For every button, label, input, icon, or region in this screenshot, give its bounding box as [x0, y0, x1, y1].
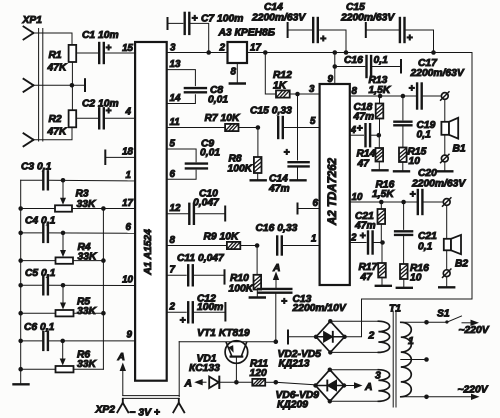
arrow net A xp2 — [122, 369, 124, 396]
svg-text:+: + — [409, 83, 415, 95]
wire C4 to pin6 — [48, 232, 135, 234]
svg-text:− 3V +: − 3V + — [130, 408, 160, 418]
svg-text:47K: 47K — [47, 63, 68, 74]
node bus2 R5 — [101, 311, 106, 316]
capacitor C20 — [417, 190, 419, 214]
wire C12 right — [193, 311, 226, 313]
svg-text:100K: 100K — [229, 284, 255, 295]
connector XP2 prong left — [117, 399, 128, 413]
wire XP1 pin2 row — [34, 84, 86, 86]
svg-text:17: 17 — [122, 198, 133, 209]
svg-text:КД213: КД213 — [279, 359, 310, 370]
wire left bus — [20, 180, 22, 383]
svg-text:~220V: ~220V — [458, 385, 489, 396]
svg-text:2: 2 — [169, 302, 176, 313]
svg-text:2200m/10V: 2200m/10V — [292, 303, 347, 314]
wire pin 12 — [167, 213, 190, 215]
wire B1 gnd — [444, 162, 446, 171]
capacitor C6 — [42, 332, 44, 350]
node bus R5 — [18, 311, 23, 316]
wire B1 top stem — [444, 99, 446, 121]
capacitor C13 — [258, 288, 291, 290]
wire C3 to pin1 — [48, 179, 135, 182]
svg-text:9: 9 — [328, 74, 334, 85]
svg-text:2200m/63V: 2200m/63V — [340, 13, 395, 24]
ground B1 — [437, 170, 452, 172]
svg-text:B2: B2 — [455, 259, 468, 270]
arrow net A right — [344, 385, 355, 387]
capacitor C15b 0.33 — [277, 117, 279, 138]
svg-text:A: A — [364, 382, 372, 393]
ground C14b — [291, 179, 306, 181]
wire C10 right — [194, 213, 225, 215]
connector XP1 pin 3 prong — [24, 133, 34, 146]
wire C19 stem — [402, 96, 404, 120]
wire right bus2 — [102, 209, 104, 370]
capacitor C4 — [42, 224, 44, 242]
node bus2 R4 — [101, 258, 106, 263]
node base/R11 — [234, 380, 239, 385]
wire C19 to R15 — [402, 125, 404, 147]
wire T1 mid tap — [401, 359, 427, 361]
wire R4 left — [21, 260, 56, 262]
wire R17 top — [381, 243, 383, 264]
node pin3 A2 — [295, 92, 300, 97]
wire -3V pair — [123, 395, 179, 397]
wire C21b to R16b — [403, 235, 405, 264]
svg-text:47: 47 — [360, 272, 374, 283]
node pin3/A3 — [206, 50, 211, 55]
capacitor C2 — [98, 108, 100, 128]
wire R16a bottom — [380, 224, 382, 243]
svg-text:8: 8 — [170, 235, 176, 246]
svg-text:0,047: 0,047 — [193, 198, 220, 209]
terminal bar mid row — [84, 79, 86, 91]
resistor R8 — [254, 157, 262, 173]
node C3 out — [61, 178, 66, 183]
svg-text:10: 10 — [409, 156, 421, 167]
resistor R15 — [399, 148, 407, 163]
svg-text:C14: C14 — [264, 2, 283, 13]
svg-text:12: 12 — [170, 203, 181, 214]
svg-text:A: A — [184, 379, 192, 390]
wire R14 gnd — [378, 162, 380, 170]
wire C20 to B2 — [422, 201, 442, 203]
node C5 out — [61, 283, 66, 288]
wire pin3 to A3 — [167, 52, 228, 54]
svg-text:47m: 47m — [268, 184, 290, 195]
node bus R4 — [18, 258, 23, 263]
svg-text:+: + — [357, 123, 363, 135]
resistor R6 — [56, 366, 74, 372]
wire C1 to pin15 — [104, 52, 135, 54]
terminal bar C15 — [365, 23, 367, 37]
transformer T1 core — [392, 311, 394, 407]
wire C16b to pin1 A2 — [282, 245, 320, 247]
ground R16b — [397, 287, 412, 289]
wire A2 pin6 stub — [298, 208, 320, 210]
wire R1 bottom to node — [71, 62, 73, 85]
svg-text:A2 TDA7262: A2 TDA7262 — [327, 157, 339, 226]
rectifier bridge VD2-VD5 — [316, 321, 345, 352]
svg-text:R10: R10 — [230, 273, 249, 284]
capacitor C10 — [188, 204, 190, 224]
capacitor C5 — [42, 276, 44, 294]
svg-text:R7 10K: R7 10K — [205, 113, 241, 124]
wire R6 right — [74, 368, 104, 370]
node bus R3 — [18, 206, 23, 211]
svg-text:1,5K: 1,5K — [372, 189, 395, 200]
wire C3 left — [21, 179, 44, 181]
svg-text:S1: S1 — [437, 309, 450, 320]
node C18/R13/R14 — [377, 133, 382, 138]
op-amp U A1 body — [135, 42, 167, 381]
wire C14 to rail — [318, 30, 346, 53]
node R7/C15/R8 — [256, 125, 261, 130]
svg-text:+: + — [192, 13, 198, 25]
node bus C5 — [18, 283, 23, 288]
wire pin4 A2 — [350, 134, 364, 136]
node R9/C16/R10 — [255, 243, 260, 248]
wire C4 left — [21, 232, 44, 234]
node bus2 R3 — [101, 206, 106, 211]
svg-text:R2: R2 — [49, 114, 62, 125]
wire pin 18 stub — [105, 156, 135, 158]
svg-text:R1: R1 — [49, 50, 62, 61]
svg-text:~220V: ~220V — [459, 325, 490, 336]
ground R17 — [376, 285, 391, 287]
resistor R7 — [225, 124, 238, 131]
wire R12 to pin3 — [290, 93, 320, 95]
svg-text:2200m/63V: 2200m/63V — [251, 13, 306, 24]
resistor R10 — [254, 275, 262, 290]
node C21b tap — [401, 200, 406, 205]
capacitor C1 — [98, 43, 100, 63]
wire C6 left — [21, 340, 44, 342]
arrow R6 wiper — [60, 359, 66, 366]
wire node to R2 top — [71, 85, 73, 110]
resistor R3 — [55, 205, 72, 211]
svg-text:+: + — [360, 230, 366, 242]
node R11/bridge — [274, 380, 279, 385]
capacitor C16b 0.33 — [276, 237, 278, 255]
wire C21b stem — [403, 202, 405, 229]
svg-text:C20: C20 — [418, 168, 437, 179]
transformer T1 winding 1 — [401, 322, 412, 397]
resistor R17 — [378, 263, 386, 278]
wire pin 2 — [167, 311, 187, 313]
wire VD1 to base — [220, 381, 236, 383]
terminal B1 top — [441, 93, 448, 100]
wire C5 left — [21, 284, 44, 286]
svg-text:КС133: КС133 — [189, 363, 220, 374]
svg-text:5: 5 — [170, 139, 176, 150]
svg-text:A3 КРЕН8Б: A3 КРЕН8Б — [218, 28, 276, 39]
wire C14b to ground — [297, 166, 299, 179]
wire emitter to XP2 — [178, 342, 180, 397]
transistor VT1 body — [225, 341, 248, 364]
wire R15 gnd — [402, 162, 404, 171]
svg-text:3: 3 — [375, 370, 381, 382]
svg-text:C5 0,1: C5 0,1 — [25, 268, 56, 279]
node rail C15 — [431, 50, 436, 55]
wire R1 to C1 — [76, 52, 99, 54]
wire XP1 pin3 to R2 bottom — [34, 127, 73, 140]
svg-text:+: + — [281, 296, 287, 308]
wire R3 left — [21, 208, 55, 210]
wire R10 stem — [256, 246, 258, 275]
svg-text:1: 1 — [311, 234, 316, 245]
svg-text:0,01: 0,01 — [200, 148, 220, 159]
terminal B2 top — [443, 199, 450, 206]
wire pin 14 — [167, 95, 196, 104]
transformer T1 winding 2 — [378, 321, 389, 352]
terminal bar C12 — [224, 303, 226, 321]
ground R15 — [394, 170, 409, 172]
svg-text:120: 120 — [250, 368, 267, 379]
resistor R5 — [56, 310, 74, 316]
svg-text:+: + — [410, 189, 416, 201]
wire R9 to node — [240, 245, 257, 247]
wire C15b to pin5 A2 — [283, 127, 320, 129]
capacitor C8 — [185, 87, 206, 89]
arrow R3 wiper — [60, 198, 66, 205]
ground A3 — [230, 82, 245, 84]
node C19 tap — [401, 94, 406, 99]
wire bridge2 bottom to T1 — [330, 400, 379, 402]
node bus C4 — [18, 231, 23, 236]
connector XP1 pin 1 prong — [24, 27, 34, 40]
node bus R6 — [18, 367, 23, 372]
wire R6 left — [21, 368, 56, 370]
capacitor C14b 47m — [289, 161, 309, 163]
wire bridge1 right — [345, 299, 362, 337]
wire R5 left — [21, 312, 56, 314]
resistor R16b — [400, 264, 408, 279]
svg-text:7: 7 — [170, 265, 176, 276]
svg-text:1: 1 — [126, 170, 131, 181]
svg-text:6: 6 — [313, 198, 319, 209]
svg-text:C4 0,1: C4 0,1 — [25, 216, 56, 227]
capacitor C3 — [42, 171, 44, 189]
svg-text:C16 0,33: C16 0,33 — [256, 223, 298, 234]
svg-text:0,01: 0,01 — [208, 95, 228, 106]
wire C15 lead — [366, 29, 400, 31]
ground B2 — [439, 286, 454, 288]
arrow net A left — [199, 381, 206, 383]
arrow R5 wiper — [60, 303, 66, 310]
connector XP1 pin 2 prong — [24, 79, 34, 92]
node rail R12 — [263, 50, 268, 55]
wire C17 to B1 — [422, 95, 441, 97]
svg-text:КД209: КД209 — [277, 400, 308, 411]
wire node to bridge2 — [276, 382, 316, 385]
arrow net A up — [275, 278, 277, 288]
wire B2 bottom stem — [446, 250, 448, 269]
resistor R4 — [56, 257, 74, 263]
resistor R13 — [376, 104, 384, 119]
svg-text:14: 14 — [170, 93, 181, 104]
resistor R1 — [69, 45, 77, 62]
capacitor C14 — [312, 18, 314, 42]
capacitor C21a — [367, 232, 369, 254]
terminal bar C14 — [287, 23, 289, 37]
wire B1 bottom stem — [444, 135, 446, 155]
svg-text:C7 100m: C7 100m — [201, 14, 243, 25]
svg-text:VT1 KT819: VT1 KT819 — [197, 328, 250, 339]
svg-text:11: 11 — [170, 117, 180, 128]
svg-text:5: 5 — [310, 116, 316, 127]
capacitor C19 — [394, 120, 411, 122]
svg-text:B1: B1 — [453, 144, 466, 155]
wire pin 5 A1 — [167, 149, 196, 162]
svg-text:47: 47 — [357, 159, 371, 170]
svg-text:0,1: 0,1 — [417, 130, 432, 141]
wire R8 stem — [257, 128, 259, 158]
svg-text:6: 6 — [170, 169, 176, 180]
svg-text:17: 17 — [250, 43, 261, 54]
svg-text:100K: 100K — [228, 164, 254, 175]
wire R6 wiper — [62, 341, 64, 360]
svg-text:C16: C16 — [344, 55, 363, 66]
svg-text:4: 4 — [125, 107, 132, 118]
svg-text:C15 0,33: C15 0,33 — [250, 106, 292, 117]
wire bottom rail — [362, 298, 473, 300]
wire R13 bottom — [379, 119, 381, 136]
wire emitter/collector line — [179, 341, 276, 343]
svg-text:XP1: XP1 — [22, 15, 43, 26]
node C21a/R16a/R17 — [380, 240, 385, 245]
resistor R11 — [252, 379, 265, 386]
svg-text:100m: 100m — [197, 302, 223, 313]
resistor R14 — [376, 148, 384, 162]
svg-text:+: + — [284, 147, 290, 159]
svg-text:10: 10 — [410, 273, 422, 284]
speaker B1 — [441, 122, 449, 135]
wire R8 to ground — [257, 173, 259, 180]
node rail pin9 — [333, 50, 338, 55]
svg-text:2: 2 — [219, 43, 226, 54]
terminal B2 bottom — [443, 270, 450, 277]
svg-text:+: + — [106, 43, 112, 54]
svg-text:47m: 47m — [353, 112, 375, 123]
wire C5 to pin10 — [48, 284, 135, 286]
node bus C6 — [18, 339, 23, 344]
svg-text:C21: C21 — [418, 231, 437, 242]
terminal bar A2 pin6 — [297, 204, 299, 214]
svg-text:C1 10m: C1 10m — [82, 30, 119, 41]
wire R5 wiper — [62, 285, 64, 304]
terminal B1 bottom — [441, 155, 448, 162]
svg-text:R12: R12 — [273, 70, 292, 81]
svg-text:10: 10 — [122, 275, 133, 286]
transformer T1 winding 3 — [378, 370, 389, 402]
wire pin 8 to R9 — [167, 245, 227, 247]
svg-text:4: 4 — [350, 125, 357, 136]
wire R3 wiper — [62, 180, 64, 199]
node rail C14 — [344, 50, 349, 55]
svg-text:8: 8 — [352, 86, 358, 97]
terminal bar bridge1 — [287, 331, 289, 344]
svg-text:C11 0,047: C11 0,047 — [177, 253, 225, 264]
svg-text:3: 3 — [170, 43, 176, 54]
svg-text:2200m/63V: 2200m/63V — [411, 179, 466, 190]
wire C15 to rail — [405, 30, 434, 53]
wire R5 right — [74, 312, 104, 314]
wire pin 13 — [167, 70, 196, 86]
terminal bar C11 — [224, 270, 226, 283]
svg-text:18: 18 — [122, 147, 133, 158]
svg-text:15: 15 — [122, 43, 133, 54]
wire pin 11 to R7 — [167, 127, 225, 129]
node C6 out — [60, 339, 65, 344]
capacitor C9 — [186, 162, 207, 164]
wire C16 right — [371, 66, 401, 68]
svg-text:9: 9 — [127, 330, 133, 341]
svg-text:8: 8 — [231, 67, 237, 78]
arrow mains bottom — [471, 394, 480, 400]
node C4 out — [61, 231, 66, 236]
wire bridge1 left lead — [288, 336, 316, 338]
svg-text:0,1: 0,1 — [374, 55, 389, 66]
wire B2 gnd — [446, 277, 448, 287]
node S1 tap — [424, 320, 429, 325]
wire pin 7 — [167, 274, 187, 276]
svg-text:2200m/63V: 2200m/63V — [410, 68, 465, 79]
svg-text:2: 2 — [350, 233, 357, 244]
ground R8 — [251, 179, 266, 181]
wire C13 down — [275, 293, 277, 342]
svg-text:1: 1 — [408, 335, 414, 347]
wire C6 to pin9 — [48, 340, 135, 342]
wire C16 lead — [335, 66, 365, 68]
wire bridge2 top to T1 — [330, 369, 379, 371]
wire R7 to node — [239, 127, 258, 129]
wire R12 branch — [265, 53, 276, 95]
svg-text:+: + — [407, 32, 413, 44]
wire supply rail — [247, 52, 472, 54]
svg-text:2: 2 — [368, 330, 375, 342]
capacitor C12 — [187, 302, 189, 322]
svg-text:1,5K: 1,5K — [369, 85, 392, 96]
connector XP2 prong right — [173, 399, 184, 413]
svg-text:T1: T1 — [389, 304, 401, 315]
switch S1 — [447, 316, 462, 322]
svg-text:R3: R3 — [76, 189, 89, 200]
arrow mains top — [462, 322, 474, 324]
resistor R9 — [227, 242, 240, 249]
op-amp U A2 body — [320, 84, 350, 285]
wire R11 to node — [265, 381, 276, 383]
wire R13 top — [379, 96, 381, 104]
wire C18 to node — [370, 134, 379, 136]
capacitor C18 — [364, 124, 366, 146]
svg-text:XP2: XP2 — [95, 405, 116, 416]
capacitor C11 — [187, 265, 189, 285]
svg-text:A: A — [117, 352, 125, 363]
regulator A3 body — [228, 42, 248, 63]
wire R2 to C2 — [76, 117, 99, 119]
resistor R2 — [69, 110, 77, 127]
wire R17 gnd — [381, 278, 383, 286]
wire A3 pin8 stem — [236, 63, 238, 83]
wire base node to R11 — [236, 381, 252, 383]
wire T1 top to S1 — [401, 321, 447, 323]
wire pin 6 A1r — [167, 170, 196, 179]
ground left bus — [14, 383, 29, 385]
capacitor C16 0.1 — [365, 56, 367, 77]
capacitor C7 — [183, 13, 185, 34]
